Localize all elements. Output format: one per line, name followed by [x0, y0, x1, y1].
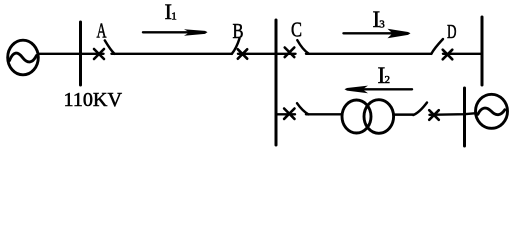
- svg-text:C: C: [291, 18, 302, 42]
- arrow I1 shaft: [143, 31, 190, 33]
- arrow I3 shaft: [344, 32, 395, 34]
- svg-text:A: A: [97, 19, 108, 43]
- generator G1 sine wave: [10, 53, 37, 62]
- svg-text:B: B: [233, 19, 244, 43]
- arrow I1 head: [184, 29, 208, 36]
- arrow I2 head: [345, 86, 369, 94]
- transformer T1 winding 1: [342, 100, 371, 133]
- wire: breaker to bus4 to generator G2: [430, 113, 477, 115]
- wire: line section A-B: [112, 53, 233, 55]
- bus 4 (right bottom busbar): [463, 88, 466, 146]
- svg-text:3: 3: [379, 18, 385, 30]
- transformer T1 winding 2: [364, 100, 394, 134]
- svg-text:D: D: [447, 21, 457, 43]
- bus 3 (D busbar, vertical right top): [481, 17, 484, 85]
- wire: blade to transformer T1: [306, 113, 342, 115]
- wire: B through bus2 to breaker C: [238, 53, 296, 55]
- generator G1 (left source): [8, 40, 39, 75]
- wire: D to bus3: [443, 53, 482, 55]
- svg-text:2: 2: [385, 74, 391, 86]
- wire: transformer to right blade: [395, 113, 414, 115]
- wire: line section C-D: [306, 53, 432, 55]
- disconnector blade left of transformer: [297, 103, 309, 114]
- breaker T1-right (x symbol): [429, 110, 439, 120]
- svg-text:1: 1: [171, 11, 177, 23]
- arrow I3 head: [388, 29, 411, 39]
- generator G2 sine wave: [478, 108, 505, 115]
- disconnector blade at B: [232, 39, 240, 54]
- disconnector blade at C: [297, 40, 308, 53]
- disconnector blade at D: [431, 39, 443, 54]
- breaker B (x symbol): [238, 49, 247, 58]
- generator G2 (right source): [476, 94, 508, 128]
- breaker A (x symbol): [94, 49, 104, 59]
- wire: G1 to bus1 to breaker A: [39, 53, 104, 55]
- wire: bus2 to breaker on transformer branch: [276, 113, 295, 115]
- breaker D (x symbol): [443, 50, 453, 60]
- bus 110KV (vertical busbar): [79, 22, 82, 85]
- disconnector blade right of transformer: [413, 103, 427, 116]
- disconnector blade at A: [105, 40, 115, 53]
- arrow I2 shaft: [352, 88, 412, 90]
- bus 2 (C busbar, vertical): [275, 20, 278, 145]
- svg-text:110KV: 110KV: [64, 89, 123, 111]
- breaker T1-left (x symbol): [284, 109, 294, 119]
- breaker C (x symbol): [285, 48, 295, 58]
